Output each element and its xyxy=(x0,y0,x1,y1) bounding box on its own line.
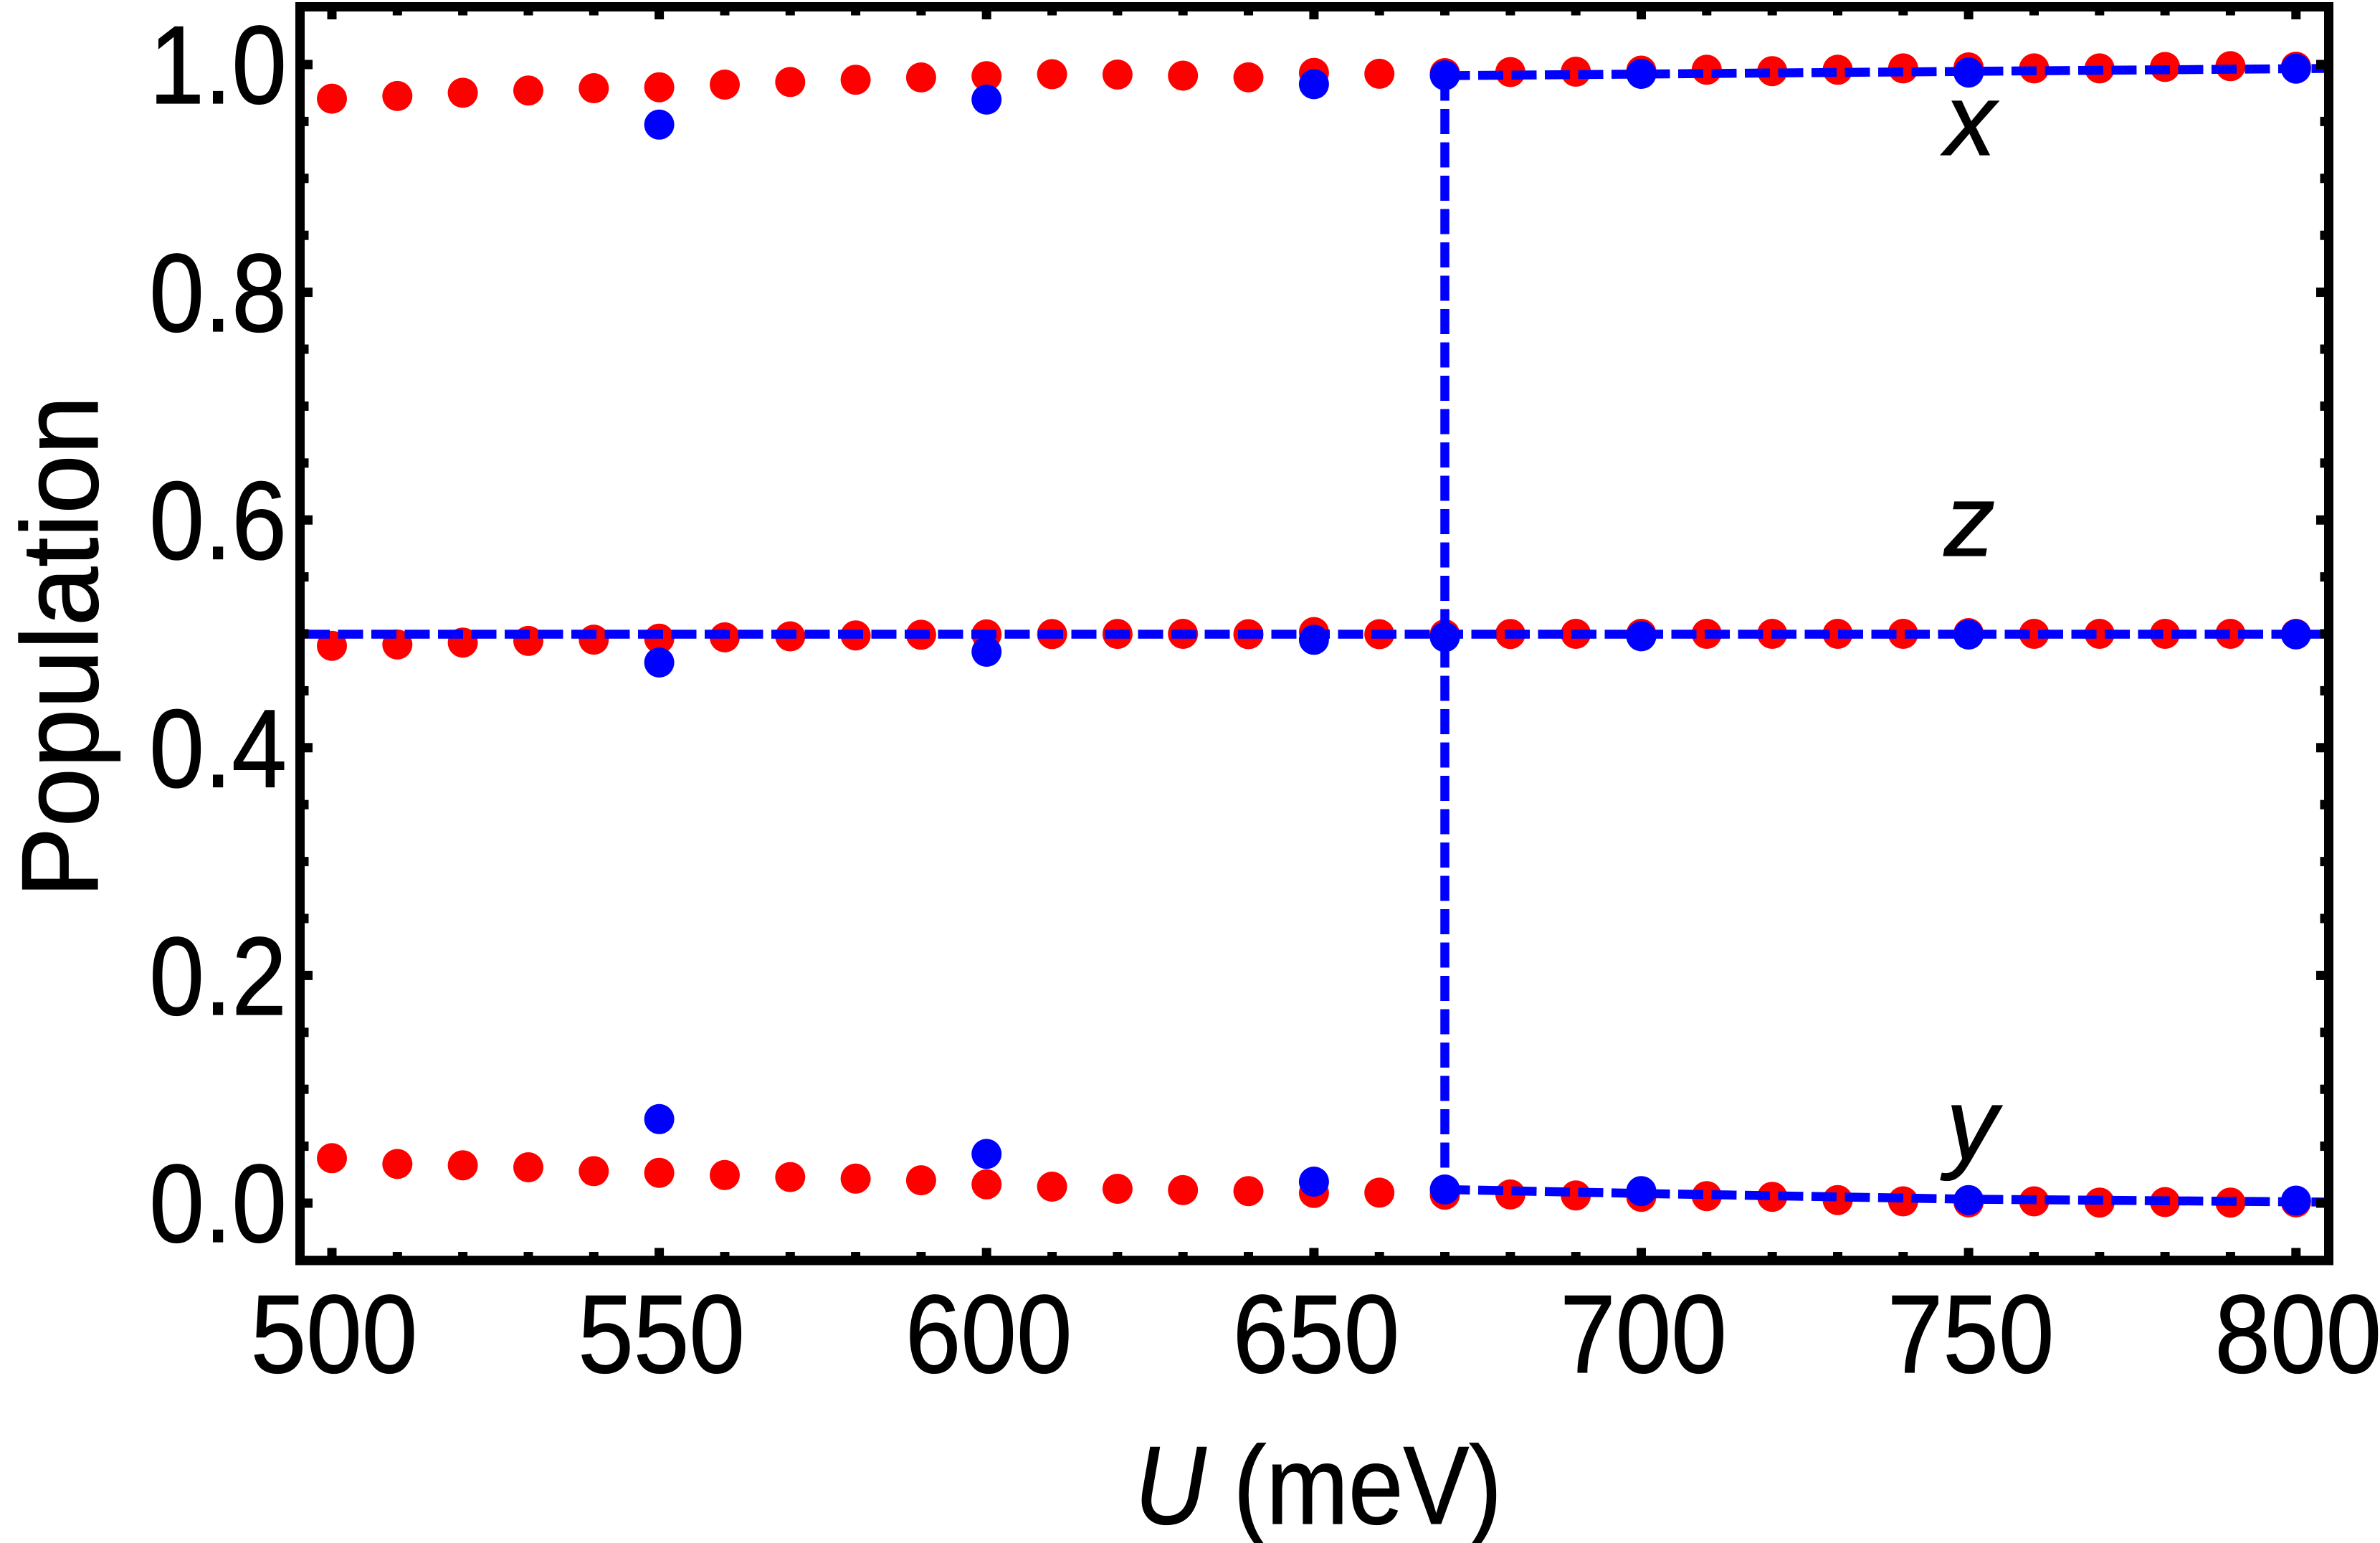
dashed theory line x branch xyxy=(1445,69,2325,76)
axis ticks xyxy=(305,11,2324,1256)
svg-text:z: z xyxy=(1943,464,1995,578)
blue data dots: series z xyxy=(644,619,2311,678)
svg-text:650: 650 xyxy=(1233,1273,1400,1396)
svg-text:550: 550 xyxy=(578,1273,745,1396)
plot frame xyxy=(300,7,2329,1261)
dashed theory line y branch xyxy=(1445,1190,2325,1202)
svg-text:800: 800 xyxy=(2214,1273,2380,1396)
svg-text:x: x xyxy=(1941,63,1999,177)
svg-text:750: 750 xyxy=(1888,1273,2055,1396)
dashed theory vertical jump at U=670 xyxy=(1440,76,1450,1190)
blue data dots: series x xyxy=(644,54,2311,140)
svg-text:0.8: 0.8 xyxy=(149,232,287,356)
svg-text:0.0: 0.0 xyxy=(149,1142,287,1266)
red data dots: series x xyxy=(317,51,2311,113)
red data dots: series z xyxy=(317,617,2311,661)
svg-text:0.6: 0.6 xyxy=(149,459,287,583)
svg-text:500: 500 xyxy=(251,1273,418,1396)
svg-text:y: y xyxy=(1940,1068,2003,1182)
svg-text:1.0: 1.0 xyxy=(149,4,287,128)
blue data dots: series y xyxy=(644,1104,2311,1216)
svg-text:Population: Population xyxy=(0,396,120,898)
red data dots: series y xyxy=(317,1143,2311,1217)
svg-text:0.4: 0.4 xyxy=(149,687,287,811)
svg-text:U (meV): U (meV) xyxy=(1135,1423,1502,1543)
svg-text:0.2: 0.2 xyxy=(149,915,287,1039)
svg-text:600: 600 xyxy=(905,1273,1072,1396)
svg-text:700: 700 xyxy=(1560,1273,1727,1396)
dashed theory line z=0.5 xyxy=(305,630,2324,639)
